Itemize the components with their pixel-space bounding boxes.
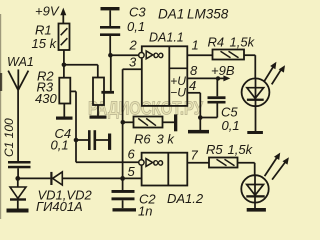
svg-text:5: 5 — [128, 164, 136, 179]
svg-text:1,5k: 1,5k — [228, 142, 254, 157]
svg-text:2: 2 — [129, 38, 138, 53]
svg-text:R4: R4 — [208, 35, 225, 50]
svg-text:15 k: 15 k — [32, 36, 58, 51]
svg-text:WA1: WA1 — [7, 55, 34, 69]
svg-text:DA1.1: DA1.1 — [149, 30, 184, 44]
svg-text:7: 7 — [191, 148, 199, 163]
svg-text:+9V: +9V — [35, 4, 60, 19]
svg-text:DA1: DA1 — [158, 7, 184, 22]
svg-text:1n: 1n — [138, 204, 152, 219]
svg-text:1: 1 — [192, 38, 199, 53]
svg-text:−U: −U — [170, 86, 186, 100]
svg-text:1,5k: 1,5k — [230, 35, 256, 50]
svg-text:∞: ∞ — [152, 155, 163, 172]
svg-text:R5: R5 — [206, 142, 223, 157]
svg-text:8: 8 — [190, 63, 198, 78]
svg-text:LM358: LM358 — [187, 7, 229, 22]
svg-text:C1 100: C1 100 — [2, 118, 16, 157]
svg-text:ГИ401А: ГИ401А — [36, 199, 83, 214]
svg-text:0,1: 0,1 — [51, 138, 69, 153]
svg-text:0,1: 0,1 — [127, 19, 145, 34]
svg-text:0,1: 0,1 — [222, 118, 240, 133]
svg-text:3 k: 3 k — [157, 131, 176, 146]
svg-text:R6: R6 — [134, 131, 151, 146]
svg-text:∞: ∞ — [153, 47, 164, 64]
svg-text:6: 6 — [128, 147, 136, 162]
svg-text:430: 430 — [35, 91, 57, 106]
svg-text:4: 4 — [189, 78, 196, 93]
svg-text:C3: C3 — [129, 5, 146, 20]
svg-text:3: 3 — [129, 55, 137, 70]
svg-text:+9B: +9B — [211, 63, 235, 78]
svg-text:DA1.2: DA1.2 — [167, 191, 204, 206]
